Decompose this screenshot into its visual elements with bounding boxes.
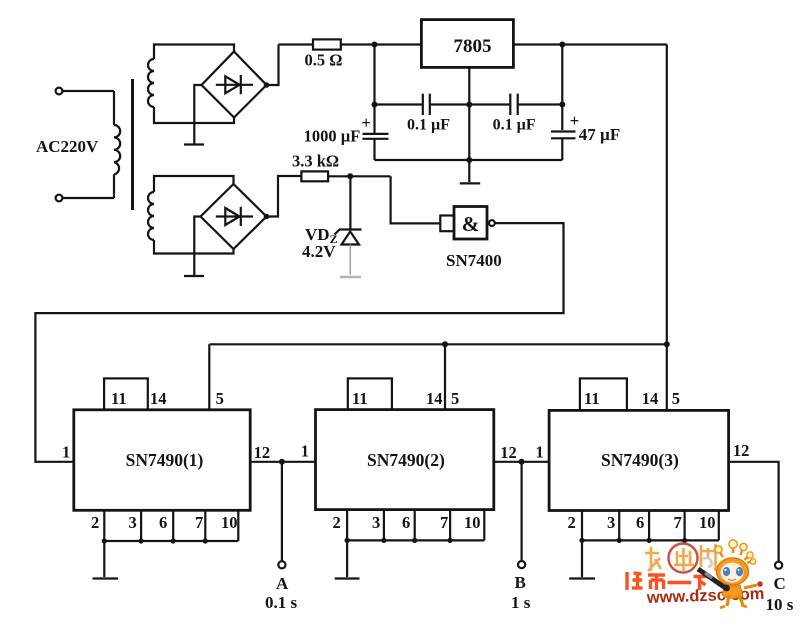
wire bbox=[63, 197, 115, 199]
ground bbox=[335, 577, 360, 579]
svg-text:11: 11 bbox=[352, 389, 368, 408]
wire top rail right bbox=[513, 43, 666, 45]
node bbox=[579, 538, 584, 543]
transformer T1 core bbox=[131, 79, 134, 210]
wire IC1 pin12 to IC2 pin1 bbox=[250, 461, 315, 463]
wire IC3 ground stem bbox=[581, 540, 583, 577]
wire IC3 pin12 to terminal C bbox=[729, 462, 779, 562]
svg-text:10: 10 bbox=[464, 513, 481, 532]
svg-text:+: + bbox=[362, 113, 371, 132]
svg-text:C: C bbox=[774, 574, 786, 593]
wire IC2 bottom pins bbox=[347, 510, 484, 541]
terminal C bbox=[775, 562, 782, 569]
svg-text:3: 3 bbox=[372, 513, 380, 532]
jumper box pins 11-14 IC1 bbox=[104, 378, 148, 409]
ground bbox=[460, 182, 480, 184]
svg-text:5: 5 bbox=[451, 389, 459, 408]
bridge rectifier B2 bbox=[201, 184, 267, 249]
svg-text:3: 3 bbox=[129, 513, 137, 532]
transformer T1 secondary winding 2 bbox=[148, 192, 154, 240]
node bbox=[412, 538, 417, 543]
node bridge B1 output bbox=[264, 82, 270, 88]
node bbox=[381, 538, 386, 543]
svg-text:SN7490(3): SN7490(3) bbox=[601, 450, 679, 470]
svg-text:3: 3 bbox=[607, 513, 615, 532]
wire to gate input bbox=[391, 176, 441, 223]
svg-text:SN7490(2): SN7490(2) bbox=[367, 450, 445, 470]
zener diode VD 4.2V bbox=[335, 176, 362, 277]
svg-text:2: 2 bbox=[568, 513, 576, 532]
svg-text:4.2V: 4.2V bbox=[302, 242, 336, 261]
wire to terminal B bbox=[520, 462, 522, 561]
node bbox=[442, 341, 448, 347]
transformer T1 secondary winding 1 bbox=[148, 59, 154, 107]
ground bbox=[93, 577, 119, 579]
node bbox=[102, 538, 107, 543]
svg-text:6: 6 bbox=[159, 513, 167, 532]
wire B1 ground tap bbox=[194, 85, 201, 144]
svg-text:1: 1 bbox=[301, 442, 309, 461]
wire bbox=[113, 174, 115, 198]
svg-text:12: 12 bbox=[500, 443, 517, 462]
wire IC2 pin12 to IC3 pin1 bbox=[494, 461, 549, 463]
svg-text:5: 5 bbox=[216, 389, 224, 408]
wire capacitor bottom rail bbox=[375, 159, 563, 161]
wire pin5 IC1 bbox=[208, 344, 210, 409]
svg-text:+: + bbox=[570, 111, 579, 130]
svg-text:2: 2 bbox=[333, 513, 341, 532]
resistor R1 0.5 ohm bbox=[313, 39, 341, 49]
svg-text:12: 12 bbox=[254, 443, 271, 462]
wire secondary 1 loop bbox=[154, 45, 234, 124]
wire pin14/5 IC2 bbox=[444, 344, 446, 409]
ground bbox=[184, 143, 204, 145]
svg-text:11: 11 bbox=[584, 389, 600, 408]
capacitor C2 0.1uF bbox=[423, 94, 430, 115]
node bbox=[559, 42, 565, 48]
node bbox=[448, 538, 453, 543]
svg-text:6: 6 bbox=[636, 513, 644, 532]
svg-text:0.5 Ω: 0.5 Ω bbox=[305, 51, 343, 70]
resistor R2 3.3k bbox=[301, 171, 328, 181]
wire IC2 ground stem bbox=[346, 540, 348, 577]
counter U6 SN7490(3) bbox=[549, 410, 729, 510]
svg-text:47 µF: 47 µF bbox=[579, 125, 620, 144]
node bbox=[203, 538, 208, 543]
wire bbox=[113, 91, 115, 125]
node bbox=[617, 538, 622, 543]
wire 7805 ground pin bbox=[468, 67, 470, 182]
transformer T1 primary terminal top bbox=[56, 88, 63, 95]
svg-text:SN7490(1): SN7490(1) bbox=[126, 450, 204, 470]
ground bbox=[184, 275, 204, 277]
svg-text:7: 7 bbox=[440, 513, 448, 532]
svg-text:5: 5 bbox=[672, 389, 680, 408]
svg-text:10 s: 10 s bbox=[766, 595, 794, 614]
svg-text:7: 7 bbox=[674, 513, 682, 532]
regulator U2 7805 bbox=[421, 20, 513, 68]
svg-text:14: 14 bbox=[150, 389, 167, 408]
wire IC1 ground stem bbox=[103, 541, 105, 577]
svg-text:14: 14 bbox=[642, 389, 659, 408]
svg-text:7805: 7805 bbox=[454, 36, 492, 57]
svg-text:0.1 µF: 0.1 µF bbox=[493, 117, 536, 134]
node bbox=[139, 538, 144, 543]
svg-text:10: 10 bbox=[699, 513, 716, 532]
svg-text:2: 2 bbox=[91, 513, 99, 532]
wire gate output loop bbox=[35, 223, 563, 462]
node bbox=[466, 157, 472, 163]
svg-text:0.1 µF: 0.1 µF bbox=[407, 117, 450, 134]
svg-text:AC220V: AC220V bbox=[36, 137, 99, 156]
wire IC3 bottom pins bbox=[582, 511, 719, 541]
terminal B bbox=[518, 561, 525, 568]
node bbox=[345, 538, 350, 543]
wire capacitor mid rail bbox=[375, 103, 563, 105]
node bbox=[171, 538, 176, 543]
node bbox=[647, 538, 652, 543]
bridge rectifier B1 bbox=[202, 52, 267, 118]
node bridge B2 output bbox=[264, 214, 270, 220]
svg-text:6: 6 bbox=[402, 513, 410, 532]
transformer T1 primary terminal bottom bbox=[56, 195, 63, 202]
node bbox=[466, 102, 472, 108]
capacitor C3 0.1uF bbox=[510, 94, 517, 115]
transformer T1 primary winding bbox=[114, 125, 120, 174]
svg-text:14: 14 bbox=[426, 389, 443, 408]
wire IC1 bottom pins bbox=[104, 511, 238, 541]
wire +5V pin bus bbox=[209, 343, 667, 345]
nand gate U3 SN7400 bbox=[440, 207, 495, 240]
svg-text:1: 1 bbox=[62, 443, 70, 462]
node bbox=[347, 173, 353, 179]
node A bbox=[279, 459, 285, 465]
node B bbox=[519, 459, 525, 465]
svg-text:3.3 kΩ: 3.3 kΩ bbox=[292, 152, 339, 171]
watermark logo dzsc bbox=[627, 540, 765, 608]
wire to terminal A bbox=[281, 462, 283, 561]
wire top rail bbox=[279, 43, 422, 45]
wire B2 ground tap bbox=[194, 217, 200, 276]
counter U4 SN7490(1) bbox=[74, 410, 250, 511]
terminal A bbox=[278, 561, 285, 568]
node bbox=[372, 42, 378, 48]
node bbox=[682, 538, 687, 543]
jumper box pin 11 IC3 bbox=[580, 378, 627, 410]
jumper box pin 11 IC2 bbox=[348, 378, 392, 409]
svg-text:0.1 s: 0.1 s bbox=[265, 593, 298, 612]
wire bbox=[328, 175, 391, 177]
ground bbox=[569, 577, 595, 579]
wire secondary 2 loop bbox=[154, 176, 234, 254]
svg-text:A: A bbox=[276, 574, 289, 593]
capacitor C1 1000uF bbox=[362, 45, 389, 161]
svg-text:1000 µF: 1000 µF bbox=[304, 127, 361, 146]
wire bbox=[267, 176, 302, 217]
node bbox=[559, 102, 565, 108]
svg-text:12: 12 bbox=[733, 441, 750, 460]
svg-text:11: 11 bbox=[111, 389, 127, 408]
node bbox=[664, 341, 670, 347]
wire main +5V vertical bbox=[666, 45, 668, 411]
wire bbox=[267, 45, 279, 86]
node bbox=[372, 102, 378, 108]
svg-text:7: 7 bbox=[195, 513, 203, 532]
wire bbox=[63, 90, 115, 92]
svg-text:SN7400: SN7400 bbox=[446, 251, 502, 270]
svg-text:1: 1 bbox=[536, 443, 544, 462]
svg-text:&: & bbox=[462, 212, 480, 236]
svg-text:1 s: 1 s bbox=[511, 593, 531, 612]
svg-text:B: B bbox=[515, 573, 526, 592]
svg-text:10: 10 bbox=[221, 513, 238, 532]
capacitor C4 47uF bbox=[551, 45, 579, 161]
counter U5 SN7490(2) bbox=[316, 410, 494, 510]
